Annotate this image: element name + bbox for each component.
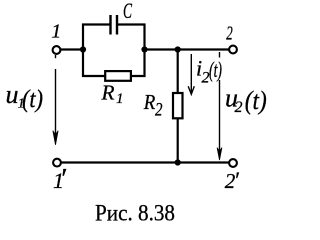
wire: capacitor to node B <box>118 25 145 50</box>
wire: R1 to node B <box>131 50 145 77</box>
capacitor C plates <box>111 15 118 35</box>
svg-text:R: R <box>101 81 115 105</box>
terminal 2 <box>229 46 237 54</box>
svg-text:(t): (t) <box>209 57 222 82</box>
current arrow i2(t): stem <box>188 54 194 94</box>
svg-text:Рис. 8.38: Рис. 8.38 <box>95 201 175 226</box>
svg-text:2: 2 <box>155 100 163 121</box>
wire: node A up to capacitor branch <box>83 25 110 51</box>
node D <box>175 159 181 165</box>
svg-text:1: 1 <box>116 91 124 107</box>
wire: node B to terminal 2 <box>145 48 230 50</box>
wire: node A down to R1 branch <box>83 49 105 76</box>
node C <box>175 46 181 52</box>
bottom wire: terminal 1' to terminal 2' <box>61 161 229 163</box>
node A <box>80 46 86 52</box>
svg-text:u: u <box>6 80 19 109</box>
svg-text:2: 2 <box>226 23 233 45</box>
terminal 2' <box>229 159 237 167</box>
resistor R1 <box>105 71 131 81</box>
node B <box>141 46 147 52</box>
voltage arrow u2(t): stem <box>219 52 221 152</box>
voltage arrow u2(t): head <box>217 148 222 160</box>
wire: terminal 1 to node A <box>61 48 81 50</box>
svg-text:(t): (t) <box>245 86 267 115</box>
voltage arrow u1(t): stem <box>55 55 57 136</box>
terminal 1 <box>53 46 61 54</box>
svg-text:2: 2 <box>235 99 243 116</box>
svg-text:R: R <box>143 90 156 114</box>
svg-text:(t): (t) <box>22 86 43 113</box>
terminal 1' <box>53 159 61 167</box>
resistor R2 <box>173 93 183 118</box>
svg-text:′: ′ <box>234 168 240 193</box>
svg-text:′: ′ <box>60 163 67 195</box>
wire: node C down to R2 <box>177 50 179 94</box>
svg-text:1: 1 <box>51 20 61 42</box>
svg-text:C: C <box>123 0 132 23</box>
wire: R2 to node D <box>177 118 179 162</box>
voltage arrow u1(t): head <box>53 131 58 145</box>
